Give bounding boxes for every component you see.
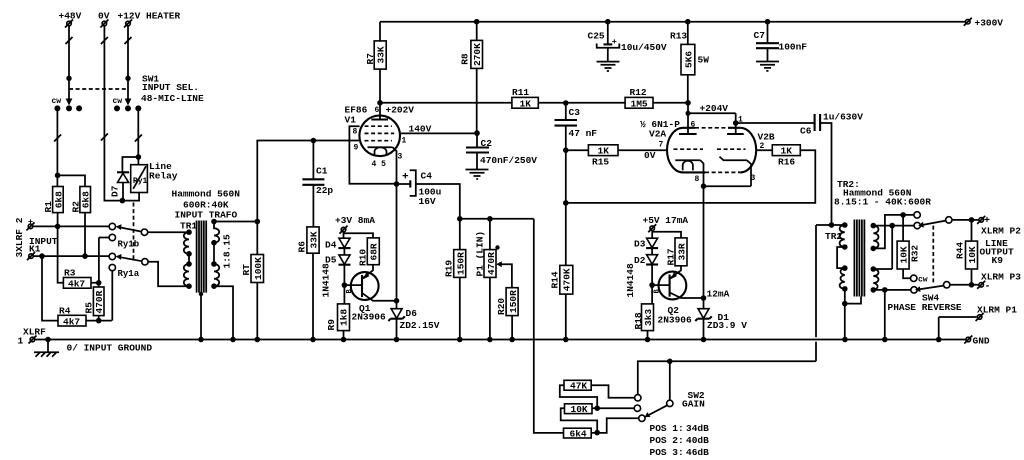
svg-text:5K6: 5K6 xyxy=(684,51,695,68)
svg-text:270K: 270K xyxy=(472,43,483,66)
svg-text:6: 6 xyxy=(691,121,696,130)
svg-text:10K: 10K xyxy=(571,404,588,415)
svg-text:C4: C4 xyxy=(421,171,433,182)
svg-text:8: 8 xyxy=(695,175,700,184)
svg-text:R19: R19 xyxy=(444,260,455,277)
svg-text:R6: R6 xyxy=(297,241,308,253)
svg-text:K1: K1 xyxy=(29,244,41,255)
svg-text:4k7: 4k7 xyxy=(63,317,80,328)
svg-text:1N4148: 1N4148 xyxy=(625,263,636,298)
svg-text:C7: C7 xyxy=(754,30,766,41)
svg-text:1: 1 xyxy=(18,336,24,347)
svg-text:9: 9 xyxy=(354,144,359,153)
svg-text:3: 3 xyxy=(751,174,756,183)
svg-text:C2: C2 xyxy=(481,138,493,149)
svg-text:V2A: V2A xyxy=(649,128,666,139)
svg-text:+48V: +48V xyxy=(59,11,82,22)
svg-text:1u/630V: 1u/630V xyxy=(823,112,863,123)
svg-text:16V: 16V xyxy=(419,196,436,207)
svg-text:Ry1a: Ry1a xyxy=(118,269,140,279)
svg-text:D4: D4 xyxy=(325,240,337,251)
svg-text:K9: K9 xyxy=(992,255,1004,266)
svg-text:4k7: 4k7 xyxy=(68,279,85,290)
svg-text:ZD2.15V: ZD2.15V xyxy=(400,320,440,331)
svg-text:D6: D6 xyxy=(406,308,418,319)
svg-text:TR1: TR1 xyxy=(180,221,197,232)
svg-text:INPUT SEL.: INPUT SEL. xyxy=(142,82,199,93)
svg-text:RT: RT xyxy=(241,264,252,276)
svg-text:0/ INPUT GROUND: 0/ INPUT GROUND xyxy=(67,343,153,354)
svg-text:6k8: 6k8 xyxy=(53,191,64,208)
svg-text:12mA: 12mA xyxy=(707,289,730,300)
svg-text:TR2: TR2 xyxy=(825,231,842,242)
svg-text:R32: R32 xyxy=(910,245,921,262)
svg-text:150R: 150R xyxy=(456,252,467,275)
svg-text:1k8: 1k8 xyxy=(338,309,349,326)
svg-text:8: 8 xyxy=(353,128,358,137)
svg-text:R12: R12 xyxy=(630,87,647,98)
svg-text:R7: R7 xyxy=(365,53,376,65)
svg-text:470nF/250V: 470nF/250V xyxy=(480,155,537,166)
svg-text:C3: C3 xyxy=(569,107,581,118)
svg-text:POS 2:: POS 2: xyxy=(650,435,684,446)
svg-text:2N3906: 2N3906 xyxy=(658,315,693,326)
svg-text:33K: 33K xyxy=(376,46,387,63)
svg-text:6: 6 xyxy=(375,106,380,115)
svg-text:1: 1 xyxy=(738,116,743,125)
svg-text:+12V HEATER: +12V HEATER xyxy=(118,11,181,22)
svg-text:XLRM P2: XLRM P2 xyxy=(981,226,1021,237)
svg-text:2N3906: 2N3906 xyxy=(352,312,387,323)
svg-text:+3V 8mA: +3V 8mA xyxy=(335,215,375,226)
svg-text:V2B: V2B xyxy=(758,132,775,143)
svg-text:+: + xyxy=(28,217,33,227)
svg-text:+: + xyxy=(984,216,990,227)
svg-text:INPUT TRAFO: INPUT TRAFO xyxy=(175,210,238,221)
svg-text:47K: 47K xyxy=(570,381,587,392)
svg-text:cw: cw xyxy=(918,276,928,285)
svg-text:P1 (LIN): P1 (LIN) xyxy=(475,231,486,277)
svg-text:POS 3:: POS 3: xyxy=(650,447,684,458)
svg-text:3k3: 3k3 xyxy=(643,309,654,326)
svg-text:C1: C1 xyxy=(316,166,328,177)
svg-text:V1: V1 xyxy=(345,115,357,126)
svg-text:R11: R11 xyxy=(512,87,529,98)
svg-text:+: + xyxy=(402,172,409,184)
svg-text:1K: 1K xyxy=(598,146,610,157)
svg-text:4 5: 4 5 xyxy=(372,160,387,169)
svg-text:Relay: Relay xyxy=(149,171,178,182)
svg-text:100nF: 100nF xyxy=(779,42,808,53)
svg-text:C25: C25 xyxy=(588,31,605,42)
svg-text:R3: R3 xyxy=(64,268,76,279)
svg-text:1:8.15: 1:8.15 xyxy=(222,234,233,269)
svg-text:48-MIC-LINE: 48-MIC-LINE xyxy=(141,93,204,104)
svg-text:+: + xyxy=(612,37,617,47)
svg-text:D3: D3 xyxy=(634,239,646,250)
svg-text:100K: 100K xyxy=(253,257,264,280)
svg-text:R14: R14 xyxy=(550,271,561,288)
svg-text:Hammond 560N: Hammond 560N xyxy=(172,189,241,200)
svg-text:R16: R16 xyxy=(778,157,795,168)
svg-text:Ry1: Ry1 xyxy=(133,177,148,186)
svg-text:140V: 140V xyxy=(409,124,432,135)
svg-text:150R: 150R xyxy=(508,290,519,313)
svg-text:R44: R44 xyxy=(955,242,966,259)
svg-text:GAIN: GAIN xyxy=(682,399,705,410)
svg-text:0V: 0V xyxy=(644,150,656,161)
svg-text:1: 1 xyxy=(402,137,407,146)
svg-text:R8: R8 xyxy=(460,53,471,65)
svg-text:XLRF: XLRF xyxy=(23,327,46,338)
svg-text:6k8: 6k8 xyxy=(81,191,92,208)
svg-text:0V: 0V xyxy=(98,11,110,22)
svg-text:GND: GND xyxy=(973,336,990,347)
svg-text:8.15:1 - 40K:600R: 8.15:1 - 40K:600R xyxy=(834,197,931,208)
svg-text:3XLRF 2: 3XLRF 2 xyxy=(14,217,25,257)
svg-text:R10: R10 xyxy=(358,249,369,266)
svg-text:R20: R20 xyxy=(496,298,507,315)
svg-text:68R: 68R xyxy=(369,243,380,260)
svg-text:33K: 33K xyxy=(309,231,320,248)
svg-text:ZD3.9 V: ZD3.9 V xyxy=(707,320,747,331)
svg-text:46dB: 46dB xyxy=(686,447,709,458)
svg-text:PHASE REVERSE: PHASE REVERSE xyxy=(888,302,962,313)
svg-text:+204V: +204V xyxy=(700,103,729,114)
svg-text:470K: 470K xyxy=(562,268,573,291)
svg-text:XLRM P1: XLRM P1 xyxy=(977,305,1017,316)
svg-text:D7: D7 xyxy=(110,185,121,197)
svg-text:10u/450V: 10u/450V xyxy=(621,42,667,53)
svg-text:7: 7 xyxy=(659,141,664,150)
svg-text:POS 1:: POS 1: xyxy=(650,423,684,434)
svg-text:R4: R4 xyxy=(59,306,71,317)
svg-text:47 nF: 47 nF xyxy=(569,128,598,139)
svg-text:6k4: 6k4 xyxy=(570,429,587,440)
svg-text:C6: C6 xyxy=(800,126,812,137)
svg-text:1K: 1K xyxy=(520,99,532,110)
svg-text:1K: 1K xyxy=(781,146,793,157)
svg-text:40dB: 40dB xyxy=(686,435,709,446)
svg-text:+5V 17mA: +5V 17mA xyxy=(643,215,689,226)
svg-text:+300V: +300V xyxy=(975,18,1004,29)
svg-text:1M5: 1M5 xyxy=(631,99,648,110)
svg-text:33R: 33R xyxy=(677,243,688,260)
svg-text:Ry1b: Ry1b xyxy=(118,240,140,250)
svg-text:34dB: 34dB xyxy=(686,423,709,434)
svg-text:10K: 10K xyxy=(899,246,910,263)
svg-text:-: - xyxy=(985,282,991,293)
svg-text:R13: R13 xyxy=(670,31,687,42)
svg-text:R17: R17 xyxy=(665,248,676,265)
svg-text:470R: 470R xyxy=(94,290,105,313)
svg-text:+202V: +202V xyxy=(386,105,415,116)
svg-text:470R: 470R xyxy=(486,252,497,275)
svg-text:22p: 22p xyxy=(316,185,333,196)
svg-text:5W: 5W xyxy=(698,55,710,66)
svg-text:R15: R15 xyxy=(592,157,609,168)
svg-text:10K: 10K xyxy=(967,246,978,263)
svg-text:R9: R9 xyxy=(326,319,337,331)
svg-text:1N4148: 1N4148 xyxy=(321,263,332,298)
svg-text:cw: cw xyxy=(113,97,123,106)
svg-text:2: 2 xyxy=(760,142,765,151)
svg-text:3: 3 xyxy=(398,153,403,162)
svg-text:cw: cw xyxy=(52,97,62,106)
